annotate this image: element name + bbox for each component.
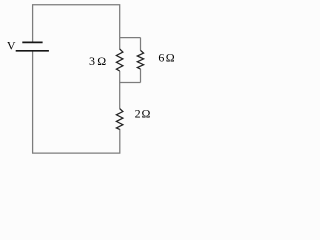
wire: right branch below 6-ohm resistor xyxy=(140,69,142,82)
battery V long plate (bottom) xyxy=(16,50,49,52)
battery V short plate (top) xyxy=(22,41,42,43)
wire: segment above 3-ohm resistor xyxy=(119,38,121,50)
svg-text:3Ω: 3Ω xyxy=(89,54,106,68)
wire: top bar of parallel branch xyxy=(120,37,141,39)
resistor R2 6-ohm zigzag xyxy=(137,50,143,69)
wire: left lower + bottom + right lower (outer loop) xyxy=(33,51,120,153)
svg-text:2Ω: 2Ω xyxy=(135,107,151,121)
wire: right branch above 6-ohm resistor xyxy=(140,38,142,51)
svg-text:6Ω: 6Ω xyxy=(158,51,174,65)
wire: bottom bar of parallel branch xyxy=(120,82,141,84)
wire: top + left upper + right upper (outer loop) xyxy=(33,5,120,43)
wire: segment below 3-ohm resistor down to 2-ohm resistor xyxy=(119,71,121,109)
resistor R1 3-ohm zigzag xyxy=(116,49,123,71)
resistor R3 2-ohm zigzag xyxy=(116,109,123,130)
svg-text:V: V xyxy=(7,39,16,53)
